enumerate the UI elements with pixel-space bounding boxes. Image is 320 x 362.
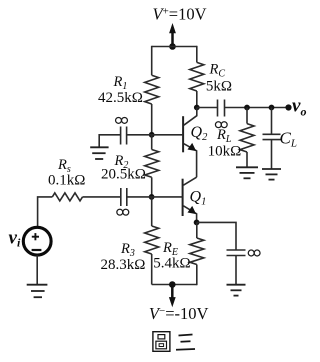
capacitor CL — [263, 134, 281, 139]
wire: right rail above RC — [196, 46, 198, 63]
capacitor: Q2 base bypass (infinite) — [121, 127, 127, 145]
svg-text:20.5kΩ: 20.5kΩ — [101, 167, 146, 183]
resistor RL — [240, 124, 254, 152]
resistor R2 — [145, 150, 159, 178]
wire: R3 bottom to bottom rail — [151, 254, 153, 285]
wire: coupling capacitor to vo terminal — [225, 107, 289, 109]
node: vo output terminal — [285, 104, 291, 110]
label infinity (output coupling capacitor) — [215, 122, 227, 128]
svg-text:10kΩ: 10kΩ — [208, 143, 242, 159]
node A: Q2 base node — [149, 132, 155, 138]
wire: Q1 base lead — [152, 196, 183, 198]
svg-text:5kΩ: 5kΩ — [206, 79, 232, 95]
capacitor: input coupling (infinite) — [121, 188, 127, 206]
caption 圖三 (Figure 3) — [153, 332, 195, 352]
transistor Q2 — [183, 108, 197, 178]
wire: RL top — [246, 108, 248, 124]
node: V- rail junction — [169, 281, 176, 288]
wire: bypass capacitor to ground stub — [99, 135, 120, 148]
capacitor: emitter bypass (infinite) — [227, 250, 246, 256]
node: V+ rail junction — [169, 43, 176, 50]
wire: RC bottom to collector node — [196, 91, 198, 108]
wire: Rs to vi source — [38, 197, 53, 227]
wire: RL bottom to ground — [246, 152, 248, 167]
label infinity (emitter bypass capacitor) — [248, 250, 260, 256]
node: Q1 emitter node — [194, 220, 200, 226]
wire: node A to R2 — [151, 135, 153, 150]
wire: R2 bottom to node B — [151, 177, 153, 197]
label infinity (Q2 base bypass capacitor) — [116, 117, 128, 123]
capacitor: output coupling (infinite) — [218, 100, 225, 117]
svg-text:V−=-10V: V−=-10V — [149, 304, 209, 323]
wire: CL bottom to ground — [271, 140, 273, 169]
resistor RC — [190, 62, 204, 91]
ground: CL — [262, 169, 281, 180]
label infinity (input coupling capacitor) — [117, 209, 129, 215]
wire: emitter node to RE — [196, 222, 198, 238]
svg-text:V+=10V: V+=10V — [152, 5, 206, 24]
wire: Q2 base lead — [152, 134, 183, 136]
resistor RE — [190, 238, 204, 265]
wire: left rail above R1 — [151, 46, 153, 75]
resistor R1 — [145, 75, 159, 104]
source vi (circle with +/-) — [23, 227, 51, 255]
node: CL top junction — [269, 105, 275, 111]
resistor Rs — [52, 193, 82, 201]
ground: vi source — [27, 285, 48, 298]
svg-text:5.4kΩ: 5.4kΩ — [153, 255, 190, 271]
wire: node B to R3 — [151, 197, 153, 226]
svg-text:0.1kΩ: 0.1kΩ — [48, 173, 85, 189]
V- supply arrow — [169, 285, 176, 308]
wire: top supply rail — [152, 46, 197, 48]
node: Q2 collector / output node — [194, 105, 200, 111]
wire: input capacitor to node B — [127, 196, 152, 198]
wire: node A to bypass capacitor — [127, 134, 152, 136]
wire: emitter node to bypass capacitor — [197, 222, 236, 250]
wire: bypass capacitor to ground — [235, 256, 237, 285]
wire: CL top — [271, 108, 273, 135]
wire: output node to coupling capacitor — [197, 107, 218, 109]
wire: R1 bottom to node A — [151, 104, 153, 135]
svg-text:28.3kΩ: 28.3kΩ — [101, 257, 146, 273]
node B: Q1 base node — [149, 194, 155, 200]
wire: RE bottom to bottom rail — [196, 265, 198, 286]
wire: bottom supply rail — [152, 284, 197, 286]
resistor R3 — [145, 226, 159, 254]
svg-text:42.5kΩ: 42.5kΩ — [98, 90, 143, 106]
transistor Q1 — [183, 177, 197, 222]
ground: RL — [236, 167, 258, 178]
ground: Q2 base bypass — [90, 147, 108, 159]
ground: emitter bypass — [227, 285, 246, 296]
node: RL top junction — [244, 105, 250, 111]
V+ supply arrow — [169, 23, 176, 47]
wire: input capacitor to Rs — [83, 196, 121, 198]
wire: vi source to ground — [36, 255, 38, 284]
